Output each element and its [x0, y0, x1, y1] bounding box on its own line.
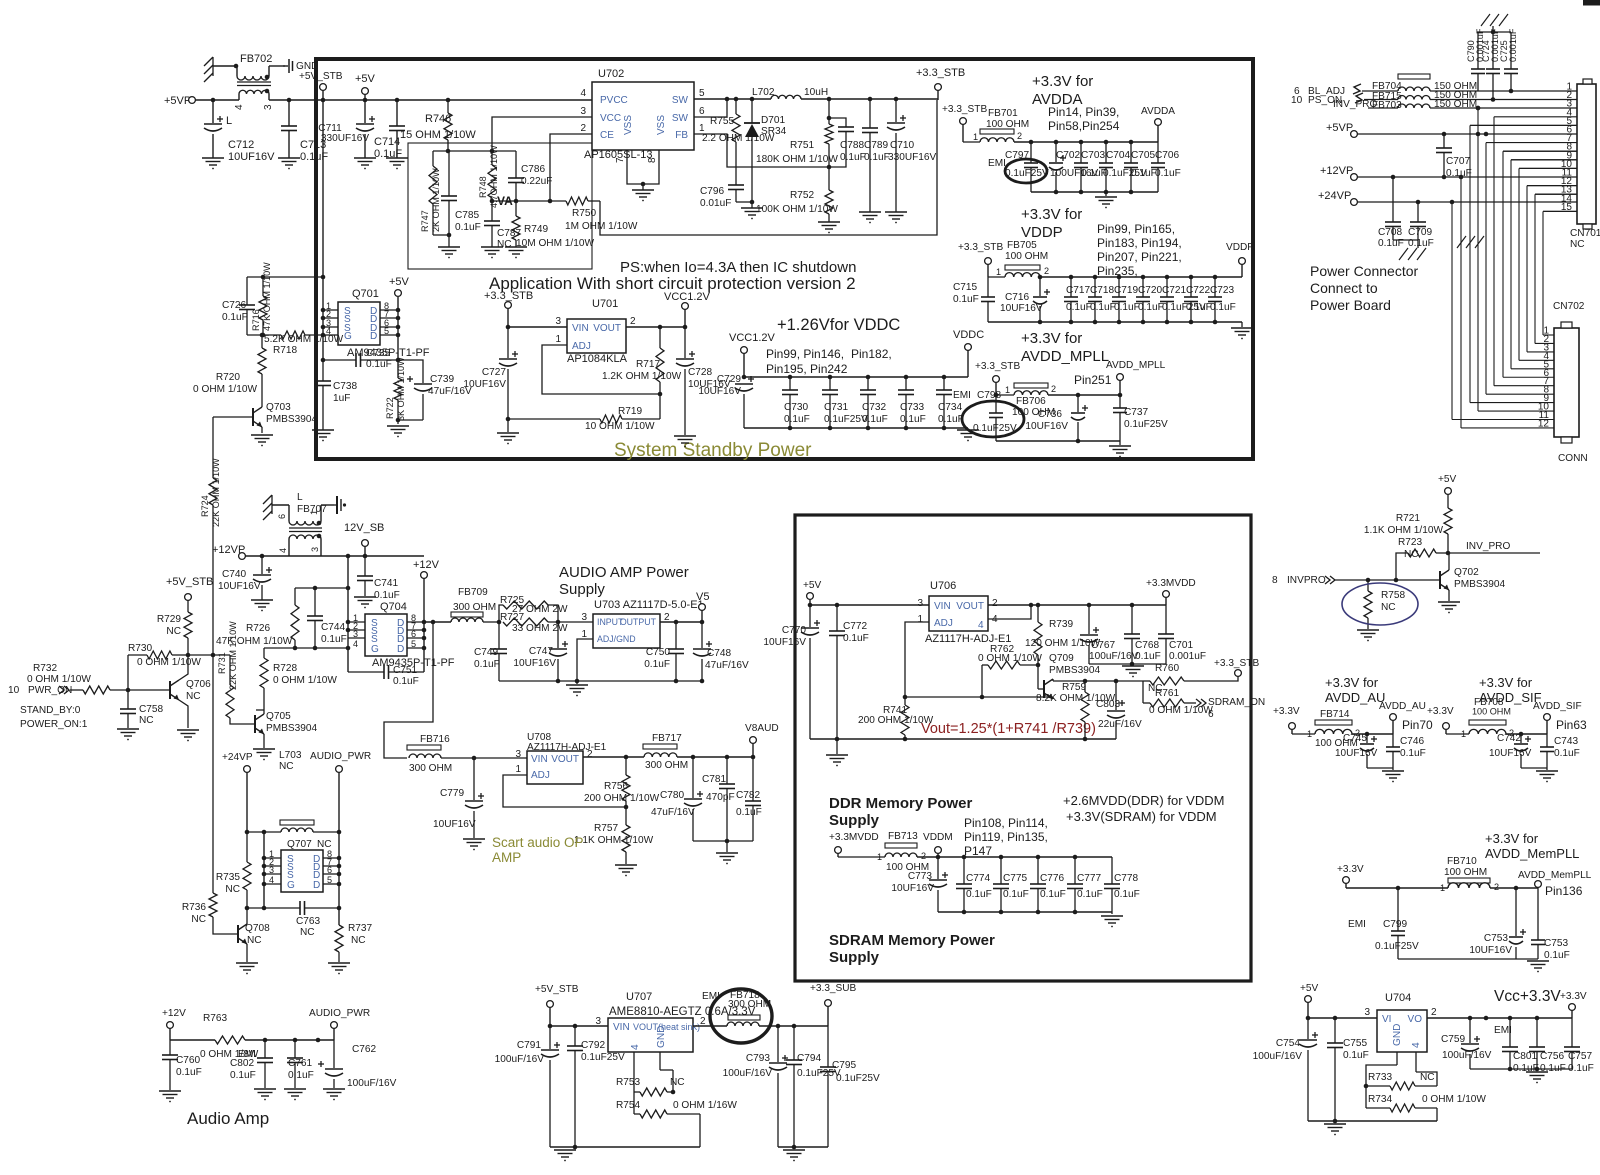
svg-text:R750: R750: [572, 208, 597, 219]
svg-text:ADJ: ADJ: [572, 341, 591, 352]
terminal VCC1.2V (bank): [729, 332, 776, 377]
capacitor C709: [1410, 202, 1426, 240]
svg-text:VIN: VIN: [531, 754, 548, 765]
svg-text:C702: C702: [1056, 150, 1081, 161]
terminal +3.3V (U704): [1560, 991, 1587, 1018]
pin ADJ/GND: [581, 629, 635, 644]
label L702: [752, 87, 828, 98]
ground C714: [386, 158, 408, 169]
label R759: [1036, 682, 1116, 704]
svg-text:R734: R734: [1368, 1094, 1393, 1105]
svg-text:PMBS3904: PMBS3904: [266, 723, 317, 734]
pin 6 FB707: [277, 514, 287, 519]
resistor R751: [825, 99, 833, 167]
title AVDD_SIF: [1479, 675, 1542, 705]
terminal VDDC: [953, 329, 984, 377]
svg-text:6: 6: [699, 106, 705, 117]
label C715: [953, 282, 979, 305]
svg-text:2: 2: [630, 316, 636, 327]
label CN702: [1553, 301, 1585, 312]
svg-text:10M OHM 1/10W: 10M OHM 1/10W: [516, 238, 594, 249]
label C740: [218, 569, 261, 592]
label C725: [1499, 28, 1518, 62]
title +3.3V for AVDDA: [1032, 73, 1093, 108]
svg-text:4: 4: [580, 88, 586, 99]
label R746: [400, 113, 476, 141]
svg-text:C712: C712: [228, 139, 254, 151]
ferrite bead FB716: [407, 734, 527, 774]
label R748: [478, 145, 499, 208]
ferrite bead FB703: [1368, 99, 1577, 111]
svg-text:NC: NC: [186, 691, 201, 702]
svg-text:Scart audio OP: Scart audio OP: [492, 835, 584, 850]
capacitor C738: [315, 360, 331, 430]
capacitor C702: [1049, 142, 1066, 192]
ground R758: [1357, 630, 1379, 641]
svg-text:R746: R746: [425, 113, 451, 125]
label C799: [1375, 919, 1419, 952]
svg-text:R758: R758: [1381, 590, 1406, 601]
svg-text:CONN: CONN: [1558, 453, 1588, 464]
transistor Q704 box: [365, 601, 407, 656]
ground C761: [284, 1089, 306, 1100]
svg-text:C710: C710: [890, 140, 915, 151]
pin SW 6: [672, 106, 705, 124]
svg-text:0.1uF25V: 0.1uF25V: [1375, 941, 1419, 952]
label AM9435P-T1-PF (Q701): [347, 347, 430, 359]
resistor R720: [258, 335, 266, 407]
svg-text:C779: C779: [440, 788, 465, 799]
capacitor C798: [989, 395, 1003, 441]
svg-text:Connect to: Connect to: [1310, 280, 1378, 296]
wire MPLL rail: [1048, 393, 1122, 398]
capacitor C791: [541, 1026, 560, 1147]
svg-text:C744: C744: [321, 622, 346, 633]
svg-text:C780: C780: [660, 790, 685, 801]
svg-text:VCC1.2V: VCC1.2V: [729, 332, 776, 344]
resistor R752: [825, 167, 833, 222]
svg-text:FB705: FB705: [1007, 240, 1037, 251]
label C747: [513, 646, 556, 669]
capacitor C799: [1391, 888, 1405, 959]
wire U704 out rail: [1427, 1016, 1572, 1021]
svg-text:10UF16V: 10UF16V: [698, 386, 741, 397]
label C736: [1025, 409, 1068, 432]
svg-text:Pin119, Pin135,: Pin119, Pin135,: [964, 830, 1048, 844]
resistor R748: [488, 151, 496, 201]
svg-text:NC: NC: [225, 884, 240, 895]
wire AVDD_AU gnd rail: [1367, 768, 1393, 770]
svg-text:SDRAM_ON: SDRAM_ON: [1208, 697, 1265, 708]
svg-text:NC: NC: [1381, 602, 1396, 613]
svg-text:FB702: FB702: [240, 53, 272, 65]
svg-text:C754: C754: [1276, 1038, 1301, 1049]
label C744: [321, 622, 347, 645]
resistor R753: [634, 1088, 675, 1096]
ground C779: [463, 839, 485, 850]
svg-text:0.1uF: 0.1uF: [321, 634, 347, 645]
svg-text:U702: U702: [598, 68, 624, 80]
resistor R759: [1081, 679, 1089, 739]
ground C710: [885, 212, 907, 223]
ground Q706: [177, 730, 199, 741]
svg-text:VOUT: VOUT: [593, 323, 621, 334]
svg-text:AZ1117H-ADJ-E1: AZ1117H-ADJ-E1: [527, 742, 607, 753]
capacitor C735: [323, 353, 398, 367]
terminal V5: [696, 591, 709, 622]
label C731: [824, 402, 868, 425]
ground C785: [438, 247, 460, 258]
label C757: [1568, 1051, 1594, 1074]
note Power Connector: [1310, 263, 1419, 313]
label C791: [495, 1040, 545, 1065]
pin VIN VOUT: [515, 749, 593, 765]
svg-text:VSS: VSS: [656, 115, 667, 135]
svg-text:C715: C715: [953, 282, 978, 293]
svg-text:Pin182,: Pin182,: [851, 347, 892, 361]
ground C740: [251, 600, 273, 611]
capacitor C727: [499, 327, 518, 421]
label R720: [193, 372, 257, 395]
svg-text:+3.3_STB: +3.3_STB: [1214, 658, 1259, 669]
svg-text:VOUT: VOUT: [551, 754, 579, 765]
svg-text:FB706: FB706: [1016, 396, 1046, 407]
note Pin251: [1074, 373, 1112, 387]
ground C711: [354, 158, 376, 169]
svg-text:0.1uF: 0.1uF: [1131, 168, 1157, 179]
label C779: [433, 788, 476, 830]
label U704: [1385, 992, 1411, 1004]
label C777: [1077, 873, 1103, 900]
label C729: [698, 374, 741, 397]
svg-text:100 OHM: 100 OHM: [1444, 867, 1487, 878]
label R751: [756, 140, 838, 165]
label L703 NC: [279, 750, 302, 772]
wire C767 rail: [1089, 663, 1166, 665]
capacitor C737: [1113, 395, 1127, 441]
label C760: [176, 1055, 202, 1078]
capacitor C751: [348, 665, 424, 679]
svg-text:G: G: [344, 331, 352, 342]
wire U704 in: [1308, 1016, 1377, 1021]
wire Q706 emitter: [179, 700, 188, 728]
transistor Q703: [213, 407, 262, 433]
svg-text:+5V: +5V: [355, 73, 376, 85]
wire R730 drop: [127, 655, 129, 690]
label R761: [1149, 688, 1213, 716]
svg-text:SR34: SR34: [761, 126, 787, 137]
label C793: [723, 1053, 773, 1079]
wire drain row to FB709: [424, 620, 451, 625]
capacitor C704: [1099, 142, 1113, 192]
svg-text:ADJ: ADJ: [531, 770, 550, 781]
svg-text:+3.3V(SDRAM) for VDDM: +3.3V(SDRAM) for VDDM: [1066, 809, 1217, 824]
capacitor C770: [801, 605, 820, 739]
svg-text:0 OHM 1/10W: 0 OHM 1/10W: [978, 653, 1042, 664]
svg-text:C793: C793: [746, 1053, 771, 1064]
ferrite bead FB708: [1446, 697, 1514, 739]
svg-text:300 OHM: 300 OHM: [453, 602, 496, 613]
label U703: [594, 599, 704, 611]
svg-text:2: 2: [992, 598, 998, 609]
label U702: [598, 68, 624, 80]
svg-text:AUDIO_PWR: AUDIO_PWR: [309, 1008, 370, 1019]
ground scart: [716, 841, 738, 864]
wire Q706 collector: [179, 655, 188, 680]
svg-text:C730: C730: [784, 402, 809, 413]
svg-text:100 OHM: 100 OHM: [1472, 707, 1511, 717]
ground C760: [159, 1091, 181, 1102]
ground C727: [497, 419, 519, 444]
label R722: [385, 357, 406, 421]
capacitor C778: [1104, 857, 1120, 912]
terminal +3.3_STB (U701): [484, 290, 533, 327]
svg-text:C708: C708: [1378, 227, 1403, 238]
svg-text:FB709: FB709: [458, 587, 488, 598]
capacitor C777: [1067, 857, 1083, 912]
label C798 value: [973, 423, 1017, 434]
svg-text:C739: C739: [430, 374, 455, 385]
wire C739 top: [398, 360, 423, 383]
resistor R750: [565, 197, 600, 205]
svg-text:FB714: FB714: [1320, 709, 1350, 720]
Q704 D pins: [397, 618, 404, 655]
capacitor C763: [247, 901, 339, 915]
capacitor C750: [668, 622, 684, 683]
label C726: [222, 300, 248, 323]
pin VIN: [555, 316, 588, 334]
ferrite bead FB714: [1292, 709, 1360, 749]
svg-text:Supply: Supply: [829, 949, 880, 966]
terminal +3.3_STB (DDR): [1214, 658, 1259, 676]
svg-text:U704: U704: [1385, 992, 1411, 1004]
Q707 S pins: [287, 854, 295, 891]
svg-text:R717: R717: [636, 359, 661, 370]
transistor Q707 box: [281, 839, 332, 892]
Q701 D pins: [370, 306, 377, 342]
svg-text:10uH: 10uH: [804, 87, 828, 98]
svg-text:+3.3_STB: +3.3_STB: [958, 242, 1003, 253]
label R758: [1381, 590, 1406, 613]
wire scart out gnd rail: [693, 840, 753, 842]
label C788: [840, 140, 866, 163]
svg-text:0.1uF: 0.1uF: [938, 414, 964, 425]
svg-text:1.1K OHM 1/10W: 1.1K OHM 1/10W: [1364, 525, 1444, 536]
svg-text:0.1uF: 0.1uF: [900, 414, 926, 425]
svg-text:+12V: +12V: [413, 559, 440, 571]
label R763: [200, 1013, 259, 1060]
svg-text:2: 2: [921, 851, 926, 861]
svg-text:VDDM: VDDM: [923, 832, 953, 843]
pin VO: [1408, 1007, 1437, 1025]
wire ADJ loop: [542, 345, 662, 396]
terminal AVDDA: [1141, 106, 1175, 142]
capacitor C794: [786, 1026, 802, 1149]
svg-text:1M OHM 1/10W: 1M OHM 1/10W: [565, 221, 638, 232]
label C774: [966, 873, 992, 900]
svg-text:VIN: VIN: [572, 323, 589, 334]
wire VDDP rail: [1038, 275, 1242, 280]
svg-text:+3.3V for: +3.3V for: [1479, 675, 1533, 690]
svg-text:+3.3V for: +3.3V for: [1485, 831, 1539, 846]
capacitor C779: [465, 758, 484, 838]
svg-text:0.1uF: 0.1uF: [1446, 168, 1472, 179]
svg-text:C742: C742: [1497, 733, 1521, 744]
resistor R762: [980, 661, 1038, 699]
svg-text:R751: R751: [790, 140, 815, 151]
svg-text:0.1uF: 0.1uF: [1554, 748, 1580, 759]
pin 1 FB707: [309, 510, 319, 515]
svg-text:CN702: CN702: [1553, 301, 1585, 312]
svg-text:0 OHM 1/10W: 0 OHM 1/10W: [1422, 1094, 1486, 1105]
label Pin63: [1556, 718, 1587, 732]
svg-text:3K OHM 1/10W: 3K OHM 1/10W: [396, 357, 406, 421]
svg-text:100K OHM 1/10W: 100K OHM 1/10W: [756, 204, 838, 215]
svg-text:+5V: +5V: [389, 276, 410, 288]
svg-text:C751: C751: [393, 665, 418, 676]
svg-text:1: 1: [973, 132, 978, 142]
title +3.3V for VDDP: [1021, 206, 1082, 241]
svg-text:10UF16V: 10UF16V: [1000, 303, 1043, 314]
svg-text:+5V: +5V: [1300, 983, 1319, 994]
svg-text:300 OHM: 300 OHM: [409, 763, 452, 774]
svg-text:10: 10: [1291, 95, 1303, 106]
label C746: [1400, 736, 1426, 759]
wire connector bus lines: [1452, 108, 1577, 428]
title Scart audio OP AMP: [492, 835, 584, 865]
terminal +3.3_STB out: [916, 67, 965, 100]
capacitor C787: [484, 201, 500, 247]
svg-text:+3.3_SUB: +3.3_SUB: [810, 983, 857, 994]
svg-text:R735: R735: [216, 872, 241, 883]
svg-text:10: 10: [8, 685, 20, 696]
svg-text:4: 4: [630, 1044, 641, 1050]
terminal +5V (DDR): [803, 580, 822, 605]
label Q709: [1049, 653, 1100, 676]
svg-text:C706: C706: [1155, 150, 1180, 161]
svg-text:Pin108, Pin114,: Pin108, Pin114,: [964, 816, 1048, 830]
capacitor C703: [1074, 142, 1088, 192]
svg-text:C718: C718: [1090, 285, 1115, 296]
ground C802: [254, 1089, 276, 1100]
resistor R716: [259, 277, 267, 335]
svg-text:NC: NC: [166, 626, 181, 637]
wire audio rail: [170, 1038, 334, 1043]
svg-text:1: 1: [309, 510, 319, 515]
svg-text:R761: R761: [1155, 688, 1180, 699]
wire AVDD_SIF rail: [1506, 732, 1547, 737]
Q707 D pins: [313, 854, 320, 891]
svg-text:0.1uF: 0.1uF: [953, 294, 979, 305]
ground R737: [328, 963, 350, 974]
gnd symbol FB707: [334, 496, 346, 514]
capacitor C710: [887, 99, 906, 212]
capacitor C796: [728, 185, 754, 204]
label C711: [318, 123, 369, 144]
svg-text:100uF/16V: 100uF/16V: [723, 1068, 773, 1079]
svg-text:R721: R721: [1396, 513, 1421, 524]
ground C712: [202, 158, 224, 169]
svg-text:C756: C756: [1540, 1051, 1565, 1062]
capacitor C739: [398, 376, 432, 420]
svg-text:10UF16V: 10UF16V: [1025, 421, 1068, 432]
Q701 S pins: [344, 306, 352, 342]
label C751: [393, 665, 419, 687]
chevron INVPRO: [1325, 576, 1396, 584]
wire U707 in: [550, 1024, 608, 1029]
pin FB: [675, 123, 705, 141]
terminal +5VP (connector): [1326, 122, 1577, 137]
svg-text:4: 4: [1411, 1042, 1422, 1048]
terminal VCC1.2V: [664, 291, 711, 327]
svg-text:+5VP: +5VP: [1326, 122, 1353, 134]
svg-text:3: 3: [263, 104, 274, 110]
svg-text:0.1uF: 0.1uF: [1040, 889, 1066, 900]
svg-text:22uF/16V: 22uF/16V: [1098, 719, 1142, 730]
wire VDDP bottom rail: [988, 320, 1242, 325]
svg-text:Pin63: Pin63: [1556, 718, 1587, 732]
wire INV_PRO out: [1448, 541, 1540, 553]
label EMI C798: [953, 390, 1002, 401]
svg-text:AVDD_SIF: AVDD_SIF: [1533, 701, 1582, 712]
transistor Q709: [1038, 665, 1053, 699]
op-amp U706 box: [929, 580, 988, 631]
capacitor C712: [204, 100, 223, 158]
capacitor C793: [769, 1026, 788, 1147]
svg-text:0.1uF: 0.1uF: [1090, 302, 1116, 313]
svg-text:NC: NC: [1404, 549, 1419, 560]
svg-text:5.2K OHM 1/10W: 5.2K OHM 1/10W: [264, 334, 344, 345]
label C794: [797, 1053, 841, 1079]
label R747: [420, 168, 441, 232]
wire VOUT rail: [626, 325, 687, 330]
pin VIN (U706): [917, 598, 950, 612]
svg-text:+3.3V for: +3.3V for: [1021, 330, 1082, 347]
label C756: [1540, 1051, 1566, 1074]
node VA: [497, 194, 513, 208]
wire MemPLL rail right: [1490, 886, 1538, 891]
ground MemPLL: [1527, 961, 1549, 972]
resistor R719: [508, 415, 660, 423]
svg-text:+5V: +5V: [1438, 474, 1457, 485]
svg-text:C719: C719: [1114, 285, 1139, 296]
svg-text:C709: C709: [1408, 227, 1433, 238]
svg-text:10UF16V: 10UF16V: [463, 379, 506, 390]
svg-text:C738: C738: [333, 381, 358, 392]
svg-text:EMI: EMI: [988, 158, 1006, 169]
svg-text:0.1uF: 0.1uF: [366, 359, 392, 370]
capacitor C768: [1124, 605, 1140, 666]
svg-text:1: 1: [515, 764, 521, 775]
svg-text:C749: C749: [474, 647, 499, 658]
svg-text:Q705: Q705: [266, 711, 291, 722]
svg-text:L: L: [226, 115, 232, 127]
ground C762: [323, 1089, 345, 1100]
svg-text:C735: C735: [366, 348, 391, 359]
wire U707 gnd rail: [550, 1146, 700, 1148]
capacitor C781: [719, 757, 735, 843]
svg-text:6: 6: [277, 514, 287, 519]
title Vcc+3.3V: [1494, 988, 1561, 1005]
resistor R757: [622, 807, 630, 864]
capacitor C773: [929, 857, 948, 912]
svg-text:C716: C716: [1005, 292, 1030, 303]
capacitor C742: [1514, 734, 1531, 768]
ferrite bead FB701: [963, 108, 1029, 142]
ground U704: [1324, 1124, 1346, 1135]
svg-text:+3.3MVDD: +3.3MVDD: [1146, 578, 1196, 589]
svg-text:FB701: FB701: [988, 108, 1018, 119]
